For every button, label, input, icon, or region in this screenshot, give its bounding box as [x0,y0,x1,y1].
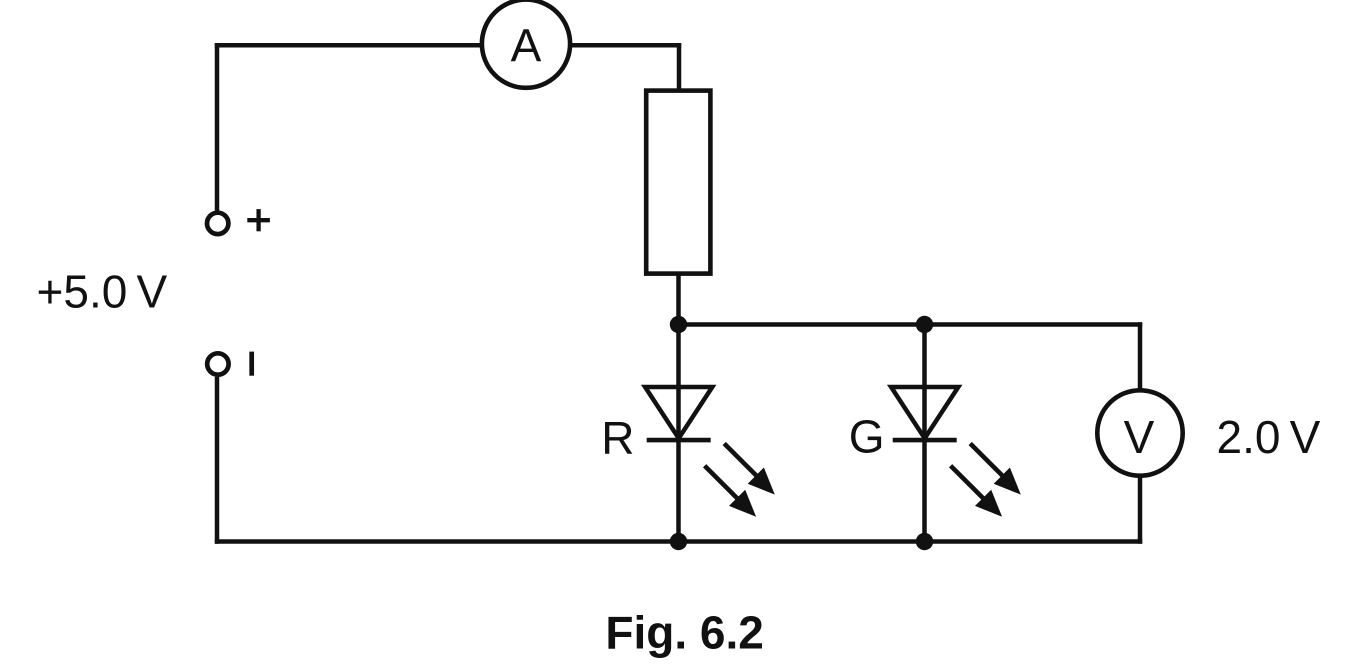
LED D2 emission arrow 1 [970,444,1021,495]
svg-text:2.0 V: 2.0 V [1217,411,1321,463]
wire: LED G anode vertical segment [922,325,927,441]
svg-text:+5.0 V: +5.0 V [37,266,168,318]
wire: top horizontal run through ammeter [215,43,681,48]
wire: top-right vertical down to resistor [677,43,682,92]
wire: negative terminal down lead [215,377,220,544]
wire: voltmeter top lead [1138,322,1143,392]
wire: left vertical from + terminal up to top-left corner [215,43,220,211]
LED D1 triangle (red LED) [645,387,712,438]
resistor (series resistor, vertical box) [646,91,710,274]
junction: node N4 (LED G bottom) [916,533,933,550]
wire: LED R anode vertical segment [676,325,681,441]
ammeter U1 (A) [482,0,570,88]
label: + polarity sign [247,209,270,231]
wire: voltmeter bottom lead [1138,474,1143,544]
svg-text:Fig. 6.2: Fig. 6.2 [605,607,763,659]
junction: node N2 (LED G top) [916,316,933,333]
LED D2 emission arrow 2 [951,466,1003,517]
LED D1 cathode bar [647,438,711,443]
wire: horizontal bus node N1 to node N2 to voltmeter branch [679,322,1143,327]
wire: resistor bottom lead to node N1 [676,272,681,327]
junction: node N1 (resistor / LED R top) [670,316,687,333]
terminal: positive supply terminal [207,213,228,234]
wire: LED R cathode vertical segment [676,440,681,542]
LED D1 emission arrow 2 [705,466,757,517]
svg-text:V: V [1124,411,1155,463]
wire: bottom return bus [215,539,1142,544]
svg-text:G: G [849,411,885,463]
svg-text:R: R [601,412,634,464]
terminal: negative supply terminal [207,353,228,374]
wire: LED G cathode vertical segment [922,440,927,542]
label: negative polarity bar [249,352,254,376]
svg-text:A: A [511,19,542,71]
voltmeter U2 (V) [1097,390,1182,475]
LED D2 triangle (green LED) [891,387,958,438]
LED D1 emission arrow 1 [724,444,775,495]
LED D2 cathode bar [893,438,957,443]
junction: node N3 (LED R bottom) [670,533,687,550]
